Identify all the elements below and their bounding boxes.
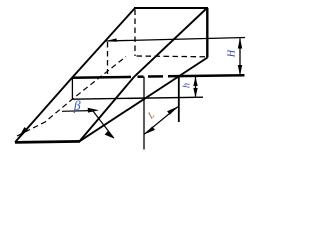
- svg-text:h: h: [182, 83, 193, 88]
- svg-text:β: β: [73, 98, 81, 113]
- svg-text:H: H: [227, 49, 238, 58]
